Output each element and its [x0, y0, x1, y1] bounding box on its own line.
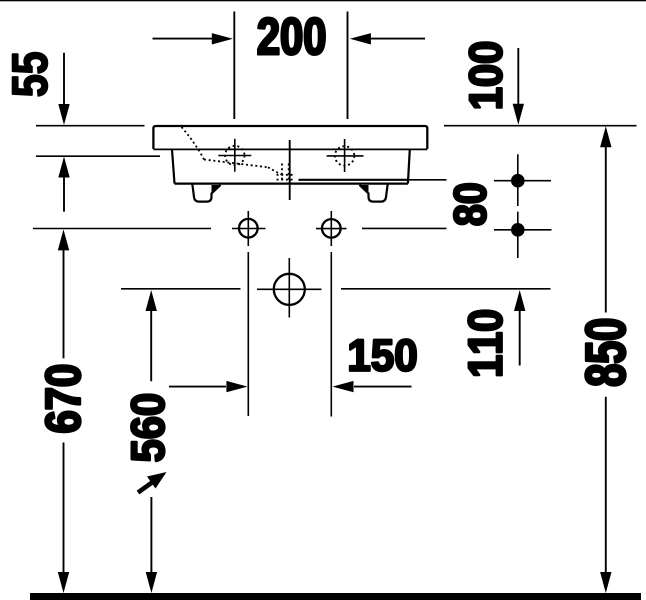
right mounting foot [360, 184, 388, 202]
dimension 55 upper arrow (down) [58, 53, 69, 125]
hidden overflow contour (dotted curve) [182, 127, 205, 160]
reference line basin-drain level right segment [341, 288, 551, 290]
dimension 150 left arrow (right-pointing) [169, 381, 248, 392]
extension line basin-bottom level [409, 179, 447, 181]
dimension 200 left extension line [233, 12, 235, 120]
dimension 110 arrow (up) [514, 290, 525, 366]
dimension 670 label [46, 366, 81, 433]
dimension 200 right extension line [347, 12, 349, 120]
left fixing hole [239, 219, 258, 238]
left faucet hole crosshair [218, 139, 251, 172]
left mounting foot [192, 184, 220, 202]
dimension 150 right arrow (left-pointing) [332, 381, 411, 392]
dimension 560 diagonal arrow [138, 472, 167, 493]
right fixing hole extension line down [330, 252, 332, 417]
drain hole circle [274, 274, 305, 305]
dimension 100 arrow (down) [513, 48, 524, 125]
lower dot crosshair [494, 212, 552, 258]
dimension 55 lower arrow (up) [58, 157, 69, 212]
dimension 100 label [469, 43, 502, 108]
reference line basin-drain level left segment [121, 288, 241, 290]
reference line rim-bottom level [36, 155, 160, 157]
right fixing hole crosshair [316, 211, 347, 246]
dimension 560 label [131, 395, 164, 462]
dimension 670 upper arrow (up) [58, 229, 69, 358]
dimension 670 lower shaft and arrow (down) [58, 443, 69, 594]
washbasin rim outline [153, 126, 427, 149]
dimension 110 label [468, 311, 502, 376]
dimension 200 right arrow [350, 33, 425, 44]
basin centre line [289, 140, 291, 200]
reference line rim-top level left segment [36, 125, 145, 127]
left fixing hole extension line down [247, 252, 249, 416]
drain hole crosshair [257, 258, 322, 318]
right fixing hole [322, 219, 341, 238]
dimension 560 lower shaft and arrow (down) [146, 497, 157, 593]
dimension 200 label [258, 18, 324, 55]
reference line fixing-holes level right segment [362, 227, 447, 229]
dimension 850 label [586, 320, 626, 386]
left fixing hole crosshair [232, 211, 266, 246]
top border line [0, 0, 646, 1]
hidden drain slope (dotted) [268, 167, 281, 174]
reference line fixing-holes level left segment [33, 228, 211, 230]
washbasin rim bottom edge [153, 148, 427, 150]
washbasin body left wall [172, 149, 175, 183]
upper wall-fixing dot [511, 174, 525, 188]
right faucet hole (dashed circle) [335, 146, 354, 165]
right faucet hole crosshair [327, 139, 364, 172]
dimension 850 upper arrow (up) [600, 126, 611, 312]
dimension 560 upper arrow (up) [146, 290, 157, 381]
dimension 150 label [350, 339, 416, 371]
reference line rim-top level right segment [444, 125, 637, 127]
lower wall-fixing dot [511, 223, 525, 237]
floor line [30, 593, 641, 600]
washbasin body right wall [408, 149, 410, 183]
left faucet hole (dashed circle) [225, 146, 244, 165]
washbasin inner bottom line [299, 179, 410, 181]
dimension 200 left arrow [153, 33, 233, 44]
dimension 850 lower shaft and arrow (down) [600, 397, 611, 593]
upper dot crosshair [494, 154, 551, 206]
hidden bowl bottom line (dotted) [204, 160, 268, 168]
washbasin body bottom edge [175, 183, 408, 185]
hidden drain box (dotted) [277, 164, 294, 181]
dimension 80 label [454, 184, 486, 225]
dimension 55 label [13, 53, 48, 96]
